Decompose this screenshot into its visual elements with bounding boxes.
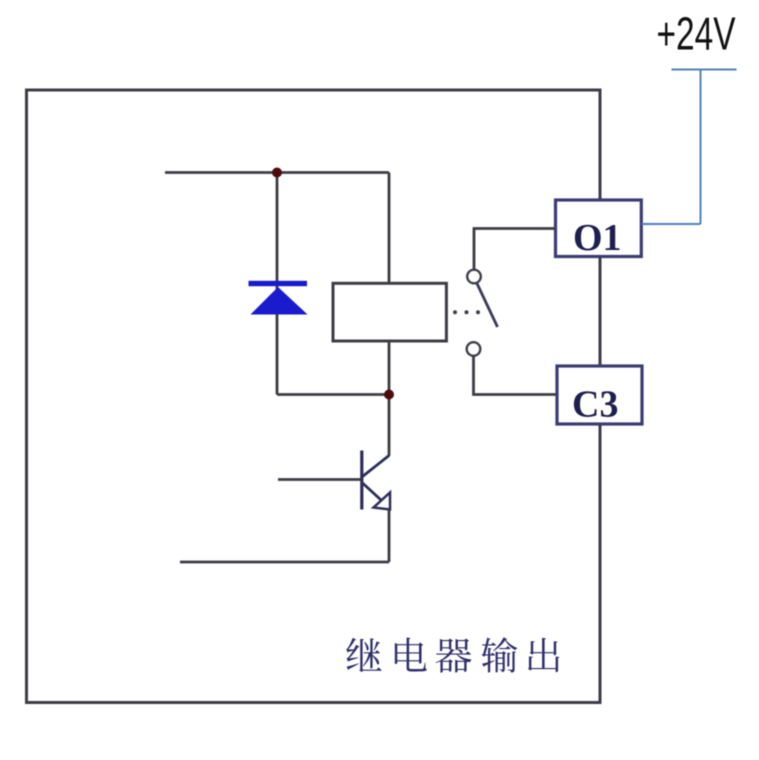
transistor emitter vertical wire [388, 510, 391, 563]
node junction dot A [272, 168, 282, 178]
wire emitter bottom horizontal [180, 561, 389, 564]
transistor collector diagonal [363, 456, 390, 477]
label text char 电 [395, 638, 427, 672]
wire supply top horizontal [672, 69, 737, 71]
wire diode branch vertical [276, 173, 279, 395]
terminal O1 box [556, 200, 642, 257]
switch blade [477, 284, 498, 328]
wire top horizontal (coil supply) [165, 171, 389, 174]
label text char 出 [528, 638, 560, 672]
wire relay coil bottom vertical to collector [388, 340, 391, 456]
switch top wire to O1 [474, 229, 556, 270]
wire supply vertical [700, 70, 702, 225]
transistor emitter arrowhead [374, 493, 391, 510]
transistor emitter diagonal [363, 483, 382, 500]
switch bottom contact circle [467, 342, 481, 356]
transistor base bar [360, 451, 363, 510]
terminal C3 box [557, 366, 642, 424]
node junction dot B [384, 390, 394, 400]
switch S1 [453, 229, 558, 395]
wire supply to O1 horizontal [642, 223, 701, 225]
wire relay coil top vertical [388, 173, 391, 285]
+24V supply wire [642, 70, 737, 225]
transistor base wire [278, 478, 361, 481]
svg-text:C3: C3 [572, 384, 618, 426]
svg-text:+24V: +24V [657, 7, 736, 59]
diode D1 (flyback, blue) [249, 281, 308, 315]
transistor Q1 [278, 451, 390, 563]
wire bottom of diode branch horizontal [277, 393, 389, 396]
label text char 继 [346, 638, 381, 672]
relay coil K1 box [333, 283, 446, 341]
switch linkage dots [453, 310, 457, 314]
label text char 器 [436, 638, 472, 672]
switch bottom wire to C3 [474, 356, 559, 395]
switch top contact circle [467, 270, 481, 284]
svg-text:O1: O1 [573, 217, 622, 259]
outer enclosure box [27, 90, 601, 703]
label text char 输 [481, 637, 517, 672]
